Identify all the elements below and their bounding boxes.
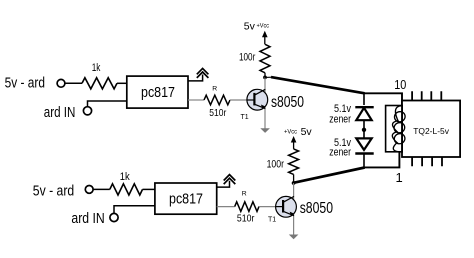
svg-text:5v: 5v: [301, 126, 313, 138]
relay coil winding: [392, 106, 405, 152]
relay K1 TQ2-L-5v body: [402, 101, 460, 158]
svg-text:1k: 1k: [92, 62, 101, 74]
zener D2 5.1v (bottom, cathode down): [355, 138, 373, 153]
wire 510r to Q1 base: [230, 99, 247, 101]
transistor Q1 s8050 (top): [247, 89, 268, 110]
Vcc chevron symbol (top U1 pin4): [188, 75, 203, 81]
svg-text:+Vcc: +Vcc: [257, 22, 270, 29]
resistor 100r (top): [260, 44, 270, 73]
svg-text:ard IN: ard IN: [44, 105, 76, 121]
resistor 1k (bottom): [110, 184, 143, 195]
optocoupler U2 pc817 (bottom): [155, 183, 217, 214]
resistor 1k (top): [82, 78, 117, 89]
svg-text:1k: 1k: [120, 171, 130, 183]
wire thin node to diagonal (top): [265, 76, 272, 78]
svg-text:R: R: [212, 86, 217, 93]
wire ard IN to U1: [88, 101, 127, 107]
svg-text:T1: T1: [241, 114, 249, 121]
relay bottom pins: [412, 157, 442, 166]
terminal 5v-ard top: [57, 79, 65, 87]
ground (bottom, Q2 emitter): [289, 235, 299, 240]
wire terminal to 1k bottom: [93, 188, 110, 190]
ground (top, Q1 emitter): [260, 128, 270, 133]
wire U2 to 510r: [217, 206, 235, 208]
svg-text:zener: zener: [329, 113, 351, 125]
svg-text:s8050: s8050: [271, 94, 304, 111]
wire U1 to R 510r: [188, 99, 204, 101]
svg-text:R: R: [242, 191, 247, 198]
svg-text:5v - ard: 5v - ard: [5, 76, 45, 92]
wire ard IN to U2: [114, 206, 155, 214]
resistor R 510r (top): [204, 95, 230, 105]
node collector Q1 junction: [263, 76, 267, 80]
Vcc chevron symbol (bottom U2 pin4): [217, 181, 230, 187]
wire zener chain top: [363, 93, 365, 167]
wire thick diagonal Q2 to relay pin1 net: [294, 168, 365, 183]
svg-text:10: 10: [394, 77, 406, 92]
optocoupler U1 pc817 (top): [127, 76, 188, 108]
relay top pins: [412, 91, 441, 100]
svg-text:5v - ard: 5v - ard: [33, 184, 74, 200]
svg-text:510r: 510r: [209, 107, 226, 119]
terminal ard IN top: [83, 107, 91, 115]
svg-text:510r: 510r: [237, 212, 255, 224]
resistor 100r (bottom): [289, 149, 299, 175]
wire pin1 net horizontal: [364, 152, 399, 168]
wire collector-emitter vertical Q1: [264, 77, 266, 129]
wire collector-emitter vertical Q2: [293, 183, 295, 236]
wire thick diagonal Q1 to relay pin10 net: [271, 77, 365, 93]
terminal ard IN bottom: [110, 213, 118, 221]
wire 510r to Q2 base: [259, 206, 276, 208]
svg-text:1: 1: [396, 170, 403, 185]
resistor R 510r (bottom): [235, 202, 259, 212]
zener D1 5.1v (top, cathode up): [355, 107, 373, 120]
svg-text:100r: 100r: [239, 51, 256, 63]
terminal 5v-ard bottom: [85, 186, 93, 194]
relay coil box: [386, 106, 403, 152]
transistor Q2 s8050 (bottom): [276, 196, 297, 217]
svg-text:+Vcc: +Vcc: [284, 129, 298, 136]
svg-text:T1: T1: [268, 217, 276, 224]
wire 1k to U1: [117, 82, 127, 84]
svg-text:5v: 5v: [244, 21, 256, 33]
svg-text:100r: 100r: [267, 159, 285, 171]
svg-text:pc817: pc817: [169, 191, 203, 208]
svg-text:TQ2-L-5v: TQ2-L-5v: [413, 126, 450, 136]
svg-text:ard IN: ard IN: [71, 211, 104, 227]
node collector Q2 junction: [292, 181, 296, 185]
node zener junction: [362, 128, 366, 132]
svg-text:s8050: s8050: [300, 200, 333, 217]
svg-text:zener: zener: [329, 147, 351, 159]
wire terminal to R 1k: [65, 82, 82, 84]
wire 1k to U2: [143, 188, 155, 190]
svg-text:pc817: pc817: [141, 84, 175, 101]
wire pin10 net horizontal: [364, 93, 402, 105]
